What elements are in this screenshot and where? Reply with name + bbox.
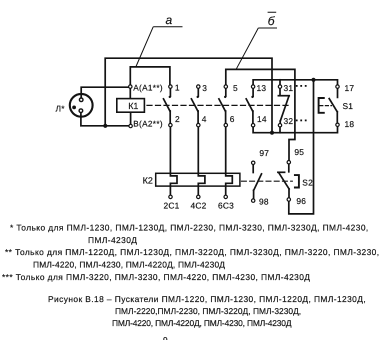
leader line label "б" [236, 12, 277, 69]
terminal 4C2 [197, 195, 200, 198]
heater K2 pole 2 (4C2) [198, 125, 205, 195]
svg-text:4: 4 [202, 114, 207, 124]
svg-text:3: 3 [202, 83, 207, 93]
connector pin top (open) [79, 98, 83, 102]
terminal 5 [224, 85, 227, 88]
terminal 18 [336, 123, 339, 126]
terminal B [129, 124, 132, 127]
button actuator S1 (E symbol) [319, 98, 332, 113]
wire: net from 5-top over to 95 (thermal NC) [226, 69, 295, 162]
junction dot at left rail / B wire [103, 124, 107, 128]
svg-text:б: б [268, 14, 276, 28]
terminal A [129, 85, 132, 88]
connector Л outer circle [70, 94, 93, 117]
contact K1 aux NO 13-14 [246, 87, 254, 126]
svg-text:32: 32 [284, 116, 294, 126]
svg-text:Рисунок В.18 – Пускатели ПМЛ-1: Рисунок В.18 – Пускатели ПМЛ-1220, ПМЛ-1… [48, 294, 366, 304]
dashed linkage from K1 to contacts [147, 104, 288, 106]
terminal 2 [169, 123, 172, 126]
wire: connector top pin to terminal A [81, 87, 130, 100]
contact K2 NC 95-96 [278, 164, 289, 199]
svg-text:2С1: 2С1 [164, 201, 180, 211]
svg-text:ПМЛ-4220, ПМЛ-4220Д, ПМЛ-4230,: ПМЛ-4220, ПМЛ-4220Д, ПМЛ-4230, ПМЛ-4230Д [112, 318, 292, 328]
terminal 4 [197, 123, 200, 126]
svg-text:6: 6 [230, 114, 235, 124]
contact K2 NO 97-98 [253, 164, 261, 199]
connector pin left (filled) [72, 106, 76, 110]
svg-text:17: 17 [345, 83, 355, 93]
wire: bottom bus 14/32/18 at y=132.7 [253, 125, 337, 133]
junction dot at 272,132.7 [270, 131, 274, 135]
wire: bridge A1 to contact 1 (group "а") [130, 67, 170, 87]
switch S1 contact 17-18 [329, 87, 337, 125]
svg-text:К1: К1 [128, 101, 138, 111]
svg-text:* Только для ПМЛ-1230, ПМЛ-123: * Только для ПМЛ-1230, ПМЛ-1230Д, ПМЛ-22… [10, 223, 369, 233]
terminal 31 [278, 85, 281, 88]
coil K1 box [117, 99, 145, 113]
terminal 6C3 [224, 195, 227, 198]
svg-text:1: 1 [175, 83, 180, 93]
svg-text:95: 95 [294, 147, 304, 157]
leader line label "а" [136, 13, 183, 67]
svg-text:К2: К2 [143, 176, 153, 186]
svg-text:Л*: Л* [56, 103, 66, 113]
svg-text:ПМЛ-2220,ПМЛ-2230, ПМЛ-3220Д,: ПМЛ-2220,ПМЛ-2230, ПМЛ-3220Д, ПМЛ-3230Д, [115, 306, 301, 316]
marker *** after 31 [296, 85, 307, 87]
svg-text:14: 14 [257, 114, 267, 124]
svg-text:97: 97 [259, 148, 269, 158]
contact K1 main pole 1-2 [164, 87, 172, 126]
terminal 1 [169, 85, 172, 88]
svg-text:ПМЛ-4230Д: ПМЛ-4230Д [88, 235, 137, 245]
terminal 95 [287, 161, 290, 164]
svg-text:98: 98 [259, 197, 269, 207]
svg-text:4С2: 4С2 [191, 201, 207, 211]
svg-text:а: а [166, 13, 173, 27]
thermal relay K2 box [156, 173, 240, 186]
svg-text:ПМЛ-4220, ПМЛ-4230, ПМЛ-4220Д,: ПМЛ-4220, ПМЛ-4230, ПМЛ-4220Д, ПМЛ-4230Д [33, 259, 225, 269]
svg-text:2: 2 [175, 114, 180, 124]
svg-text:18: 18 [345, 119, 355, 129]
svg-text:** Только для ПМЛ-1220Д, ПМЛ-1: ** Только для ПМЛ-1220Д, ПМЛ-1230Д, ПМЛ-… [5, 247, 380, 257]
wire: connector bottom pin to terminal B [81, 111, 131, 126]
connector pin bottom (open) [79, 109, 83, 113]
svg-text:S2: S2 [302, 177, 313, 187]
terminal 14 [251, 124, 254, 127]
terminal 6 [224, 123, 227, 126]
contact K1 main pole 5-6 [219, 87, 227, 126]
svg-text:*** Только для ПМЛ-3220, ПМЛ-3: *** Только для ПМЛ-3220, ПМЛ-3230, ПМЛ-4… [2, 272, 310, 282]
terminal 96 [287, 198, 290, 201]
wire: stub 32 bottom to bus [279, 125, 281, 133]
svg-text:31: 31 [284, 83, 294, 93]
terminal 2C1 [169, 195, 172, 198]
contact K1 aux NC 31-32 [278, 87, 289, 126]
heater K2 pole 3 (6C3) [226, 125, 233, 195]
terminal 13 [251, 85, 254, 88]
terminal 98 [252, 199, 255, 202]
svg-text:В(А2**): В(А2**) [133, 119, 163, 128]
terminal 32 [278, 124, 281, 127]
terminal 17 [336, 85, 339, 88]
wire: net 13/31 tops to S1 terminal 17 [253, 80, 337, 87]
heater K2 pole 1 (2C1) [170, 125, 177, 195]
svg-text:9: 9 [163, 335, 168, 340]
wire: left rail (B/A2 net) vertical + top rail + right drop to 14/32 bus [105, 58, 272, 133]
svg-text:13: 13 [257, 83, 267, 93]
wire: stub 31 top to 13-17 bus [279, 80, 281, 87]
contact K1 main pole 3-4 [191, 87, 199, 126]
svg-text:А(А1**): А(А1**) [133, 83, 163, 92]
svg-text:5: 5 [233, 83, 238, 93]
wire: vertical from junction down to 96 return [289, 80, 314, 214]
svg-text:S1: S1 [343, 101, 354, 111]
marker *** after 32 [296, 120, 307, 122]
svg-text:6С3: 6С3 [218, 201, 234, 211]
dashed linkage from K2 to 97/95 contacts [242, 180, 293, 182]
svg-text:96: 96 [296, 196, 306, 206]
junction dot at 313.5,79.8 [311, 78, 315, 82]
wire: coil branch A to B through K1 [129, 87, 131, 126]
terminal 3 [197, 85, 200, 88]
button actuator S2 (bracket symbol) [295, 175, 299, 187]
terminal 97 [252, 161, 255, 164]
